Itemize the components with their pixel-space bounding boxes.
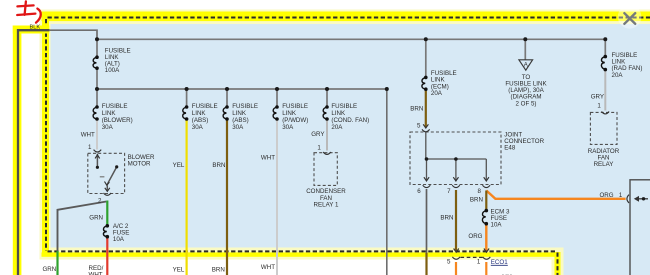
svg-text:GRN: GRN — [42, 266, 56, 273]
svg-text:8: 8 — [478, 188, 482, 195]
svg-text:WHT: WHT — [81, 131, 95, 138]
svg-text:ORG: ORG — [468, 233, 482, 240]
svg-text:100A: 100A — [105, 67, 120, 74]
svg-text:BRN: BRN — [440, 215, 453, 222]
svg-text:GRY: GRY — [311, 131, 324, 138]
svg-text:5: 5 — [417, 123, 421, 130]
svg-text:WHT: WHT — [261, 155, 275, 162]
svg-text:LINK: LINK — [331, 110, 346, 117]
svg-text:LINK: LINK — [282, 110, 297, 117]
svg-text:FUSIBLE: FUSIBLE — [331, 103, 357, 110]
svg-text:(ABS): (ABS) — [232, 117, 249, 124]
svg-text:20A: 20A — [431, 90, 443, 97]
svg-text:20A: 20A — [331, 124, 343, 131]
svg-text:YEL: YEL — [173, 267, 185, 274]
svg-text:1: 1 — [619, 192, 623, 199]
svg-text:(BLOWER): (BLOWER) — [102, 117, 133, 124]
svg-text:RELAY 1: RELAY 1 — [314, 202, 339, 209]
svg-text:(COND. FAN): (COND. FAN) — [331, 117, 369, 124]
svg-text:LINK: LINK — [102, 110, 117, 117]
svg-text:BLK: BLK — [30, 24, 41, 30]
svg-text:BRN: BRN — [212, 162, 225, 169]
svg-text:LINK: LINK — [192, 110, 207, 117]
svg-text:10A: 10A — [491, 222, 503, 229]
svg-text:GRY: GRY — [591, 94, 604, 101]
svg-text:BRN: BRN — [470, 197, 483, 204]
svg-text:WHT: WHT — [261, 264, 275, 271]
svg-text:BRN: BRN — [212, 267, 225, 274]
svg-text:(P/WDW): (P/WDW) — [282, 117, 308, 124]
svg-text:FUSIBLE: FUSIBLE — [192, 103, 218, 110]
svg-text:30A: 30A — [192, 124, 204, 131]
svg-text:RELAY: RELAY — [594, 161, 614, 168]
svg-text:LINK: LINK — [232, 110, 247, 117]
svg-text:MOTOR: MOTOR — [128, 161, 151, 168]
svg-text:1: 1 — [88, 144, 92, 151]
svg-text:YEL: YEL — [173, 162, 185, 169]
svg-text:(ABS): (ABS) — [192, 117, 209, 124]
svg-text:30A: 30A — [232, 124, 244, 131]
svg-text:30A: 30A — [102, 124, 114, 131]
svg-text:10A: 10A — [113, 236, 125, 243]
svg-text:7: 7 — [447, 188, 451, 195]
svg-text:WHT: WHT — [89, 272, 103, 275]
svg-text:5: 5 — [447, 259, 451, 266]
svg-text:6: 6 — [417, 188, 421, 195]
svg-text:FUSIBLE: FUSIBLE — [102, 103, 128, 110]
svg-text:FUSIBLE: FUSIBLE — [232, 103, 258, 110]
svg-text:20A: 20A — [612, 72, 624, 79]
svg-text:1: 1 — [597, 102, 601, 109]
svg-text:30A: 30A — [282, 124, 294, 131]
svg-text:2 OF 5): 2 OF 5) — [516, 100, 537, 107]
svg-text:FUSIBLE: FUSIBLE — [282, 103, 308, 110]
svg-text:2: 2 — [98, 197, 102, 204]
svg-text:A: A — [524, 63, 528, 69]
svg-text:ORG: ORG — [599, 192, 613, 199]
svg-text:1: 1 — [317, 144, 321, 151]
svg-text:1: 1 — [477, 259, 481, 266]
svg-text:GRN: GRN — [89, 214, 103, 221]
svg-text:BRN: BRN — [410, 105, 423, 112]
svg-text:E48: E48 — [504, 145, 516, 152]
